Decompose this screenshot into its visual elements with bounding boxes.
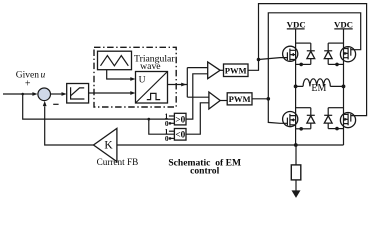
arrow into limiter	[62, 92, 67, 96]
arrow into comparator U	[130, 91, 135, 95]
wire: to amp2 upper input	[187, 96, 209, 98]
wire: PWM2 route down to Q3 gate	[268, 99, 287, 124]
svg-text:PWM: PWM	[229, 94, 251, 104]
arrow on comparator output	[181, 83, 186, 87]
PWM1 block	[224, 64, 249, 77]
VDC right rail bar	[334, 28, 352, 30]
PWM2 block	[227, 93, 252, 105]
stub 1 input of >0	[169, 115, 175, 117]
VDC left rail bar	[287, 28, 305, 30]
wire: Q1-D1 top connector	[296, 42, 311, 44]
node: Q3 source junction	[299, 127, 303, 131]
triangular wave generator	[98, 51, 132, 69]
wire: <0 output up to amp2 lower input	[186, 103, 209, 134]
wire: junction to resistor	[295, 145, 297, 165]
wire: Q4-D4 top connector	[328, 107, 343, 109]
svg-text:VDC: VDC	[287, 19, 306, 29]
wire: Q4-D4 bottom connector	[328, 128, 343, 130]
wire: branch down to <0 input	[149, 119, 175, 134]
transistor Q2 upper-right MOSFET	[340, 47, 355, 62]
transistor Q3 lower-left MOSFET	[283, 112, 298, 127]
amplifier amp2	[209, 92, 220, 109]
stub 1 input of <0	[169, 130, 175, 132]
comparator U block	[136, 72, 168, 104]
node: input branch tee	[21, 93, 24, 96]
minus sign	[53, 103, 58, 105]
svg-text:0: 0	[165, 134, 169, 143]
wire: reference input	[3, 93, 33, 95]
diode D2	[324, 43, 332, 64]
diode D3	[307, 108, 315, 129]
node: PWM1 tee	[257, 58, 261, 62]
arrow into comparator from triangle wave	[130, 77, 135, 81]
wire: left leg rail	[295, 29, 297, 145]
arrow into summing junction bottom	[43, 101, 47, 106]
svg-text:Givenu: Givenu	[16, 71, 46, 81]
svg-text:PWM: PWM	[225, 65, 247, 75]
wire: >0 output up to amp1 lower input	[186, 74, 208, 119]
arrow into summing junction	[32, 92, 37, 96]
wire: resistor to ground	[295, 180, 297, 191]
wire: Q3-D3 top connector	[296, 107, 311, 109]
node: EM left tap	[294, 85, 298, 89]
svg-text:+: +	[25, 78, 31, 89]
transistor Q4 lower-right MOSFET	[340, 113, 355, 128]
wire: PWM2 output	[252, 98, 268, 100]
wire: K output to summing junction	[45, 106, 94, 145]
wire: branch down to sign comparators	[23, 94, 175, 119]
wire: junction to limiter	[51, 93, 63, 95]
stub 0 input of >0 with terminal square	[169, 122, 175, 124]
amplifier amp1	[208, 62, 220, 79]
diode D1	[307, 43, 315, 64]
wire: amp1 to PWM1	[220, 69, 223, 71]
comparator <0 block	[174, 129, 186, 141]
inductor EM	[296, 79, 344, 87]
ground	[292, 190, 301, 198]
wire: limiter to comparator U	[89, 92, 132, 94]
wire: comparator output	[168, 84, 188, 86]
svg-text:<0: <0	[175, 130, 185, 140]
wire: PWM2 route up and over to Q2 gate	[268, 13, 360, 99]
stub 0 input of <0 with terminal square	[169, 137, 175, 139]
transistor Q1 upper-left MOSFET	[283, 46, 298, 61]
svg-text:U: U	[139, 76, 146, 86]
wire: output split vertical	[186, 68, 188, 98]
diode D4	[324, 108, 332, 129]
node: Q1 source junction	[299, 63, 303, 67]
wire: Q2-D2 top connector	[328, 42, 343, 44]
svg-text:K: K	[104, 140, 113, 152]
wire: current sense line	[117, 144, 344, 146]
wire: Q2-D2 bottom connector	[328, 63, 343, 65]
wire: amp2 to PWM2	[220, 100, 227, 102]
amplifier K current feedback	[94, 128, 117, 161]
svg-text:VDC: VDC	[334, 19, 353, 29]
node: Q4 source junction	[335, 127, 339, 131]
svg-text:EM: EM	[311, 83, 326, 94]
svg-text:wave: wave	[140, 61, 160, 72]
node: branch to <0	[147, 118, 150, 121]
summing junction	[38, 88, 51, 101]
limiter block	[67, 84, 89, 104]
wire: Q3-D3 bottom connector	[296, 128, 311, 130]
wire: PWM1 output	[248, 60, 259, 71]
wire: triangle wave to comparator	[107, 70, 132, 79]
comparator >0 block	[174, 113, 186, 125]
svg-text:control: control	[190, 165, 219, 176]
node: PWM2 tee	[267, 97, 271, 101]
wire: right leg rail	[343, 29, 345, 145]
node: sense junction	[294, 143, 298, 147]
svg-text:>0: >0	[175, 115, 185, 125]
svg-text:Current FB: Current FB	[97, 157, 139, 167]
node: Q2 source junction	[335, 63, 339, 67]
resistor R	[291, 165, 301, 180]
dash-dot PWM generator box	[94, 47, 176, 107]
wire: to amp1 upper input	[187, 67, 207, 69]
node: EM right tap	[342, 85, 346, 89]
wire: PWM1 to Q1 gate	[259, 58, 288, 60]
wire: Q1-D1 bottom connector	[296, 63, 311, 65]
wire: PWM1 route over top to Q4 gate	[259, 4, 367, 116]
